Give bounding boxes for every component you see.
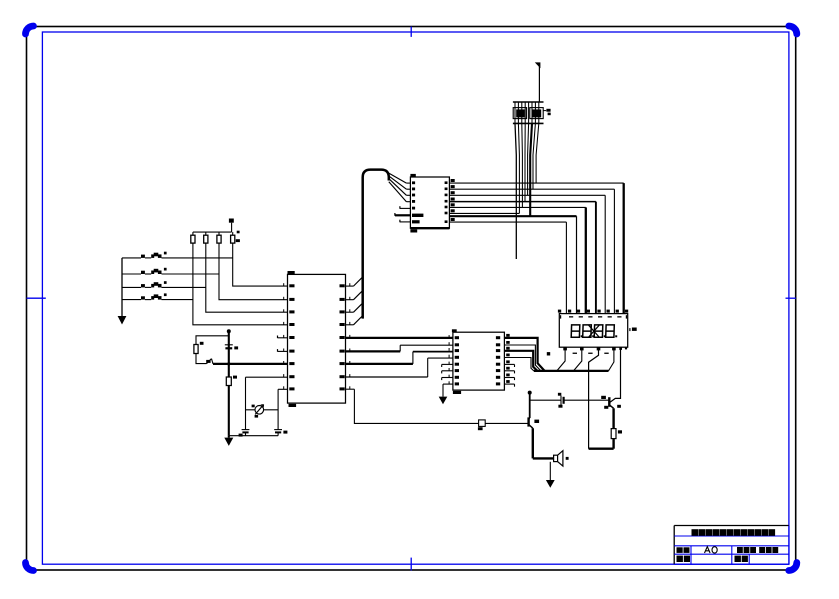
wire crystal line 2: [533, 123, 535, 189]
resistor R2: [204, 232, 208, 243]
ground oscillator: [224, 436, 233, 446]
U2 pin 6 stub: [394, 213, 410, 216]
label Y1: [544, 109, 551, 115]
capacitor CT1 trimmer: [252, 405, 264, 418]
title block: [674, 526, 789, 565]
DS1 bottom pins: [547, 347, 627, 355]
wire R4 to U1 pin 1: [233, 243, 288, 286]
node VCC oscillator: [227, 329, 231, 333]
wire U3.2 to rail: [504, 345, 541, 371]
wire crystal line 8: [515, 123, 516, 259]
wire segment bus b6: [449, 216, 576, 313]
wire R5 to Q3: [196, 354, 207, 364]
U2 pin 7 stub: [399, 220, 410, 223]
wire crystal line 4: [528, 123, 529, 195]
wire R8 to bottom rail: [612, 439, 614, 449]
wire DS1.p1 to rail: [557, 347, 565, 371]
DS1 top pin numbers: [558, 310, 628, 313]
wire DS1.p5 to Q2: [610, 347, 621, 402]
transistor Q1: [529, 417, 540, 428]
U3 right hook pins: [504, 364, 514, 386]
crystal Y1: [513, 102, 544, 123]
wire trimmer rail: [246, 409, 279, 411]
wire trimmer left branch: [245, 377, 247, 429]
wire Q2 base feed: [530, 399, 561, 401]
node junction osc: [227, 362, 230, 365]
capacitor C3: [274, 430, 287, 434]
wire speaker feed: [533, 457, 554, 459]
ground speaker: [546, 480, 555, 488]
wire crystal line 3: [530, 123, 532, 216]
switch S3: [122, 281, 206, 287]
resistor R5: [194, 342, 204, 354]
resistor R6: [226, 376, 237, 386]
transistor Q3: [206, 359, 213, 364]
U1 pin 5 stub: [277, 336, 288, 339]
wire segment rail: [534, 370, 609, 372]
wire crystal line 5: [524, 123, 526, 201]
wire U1 pin 8: [246, 376, 288, 378]
Y1 hatch pins: [515, 102, 539, 123]
U2 pin labels right: [445, 179, 455, 223]
wire Q1 emitter: [532, 428, 534, 458]
node VCC Q1: [528, 391, 532, 395]
wire U1.8 to U3.4: [346, 358, 453, 377]
switch S2: [122, 268, 219, 274]
wire switch common: [121, 258, 123, 316]
wire R3 to U1 pin 2: [219, 243, 288, 300]
ground U3: [439, 397, 448, 405]
node VCC crystal: [535, 62, 541, 68]
transistor Q2: [604, 397, 621, 409]
U2 pin 5 stub: [399, 206, 410, 209]
wire osc bottom rail: [229, 435, 278, 437]
U1 pin labels right: [340, 284, 345, 390]
wire speaker to ground: [549, 462, 551, 480]
wire Q3 to U1 pin 7: [213, 363, 288, 365]
wire U1.5 to U3.1: [346, 337, 453, 339]
resistor R8: [611, 429, 622, 439]
ground switches: [118, 316, 127, 325]
U2 pin labels left: [412, 181, 423, 223]
wire DS1.p2 to rail: [574, 347, 582, 371]
U1 pin ticks: [283, 283, 350, 389]
U3 left hook pins: [442, 364, 453, 380]
switch S1: [122, 252, 233, 258]
wire osc main vertical: [228, 331, 230, 436]
wire U1 pin 9: [278, 388, 287, 390]
U3 pin labels left: [449, 335, 459, 385]
wire Q2 emitter: [612, 408, 614, 428]
U3 pin labels right: [496, 334, 510, 386]
capacitor C1: [225, 345, 238, 350]
wire segment bus b7: [449, 222, 566, 314]
wire segment bus b1: [449, 183, 623, 314]
wire U3 pin8 to ground: [443, 384, 453, 397]
resistor R4: [231, 232, 235, 243]
wire pull-up bus: [193, 231, 232, 233]
wire DS1.p3 digit drive: [589, 347, 599, 449]
speaker LS1: [554, 451, 569, 466]
op-amp U3 (decoder IC): [452, 329, 505, 394]
capacitor C2: [239, 430, 250, 437]
wire segment bus b2: [449, 189, 614, 313]
wire U2 left fan: [387, 172, 411, 202]
capacitor C4: [558, 393, 564, 408]
resistor R1: [191, 232, 195, 243]
diode D1: [478, 420, 529, 430]
label R7: [601, 396, 606, 399]
wire crystal line 6: [521, 123, 524, 207]
wire osc top loop: [196, 336, 229, 345]
display DS1: [559, 314, 636, 348]
wire thick bus U1 to U2: [363, 170, 389, 319]
wire U1.6 to U3.2: [346, 345, 453, 351]
wire segment bus b3: [449, 195, 605, 313]
title text: [692, 529, 776, 536]
wire R1 to U1 pin 4: [193, 243, 288, 325]
wire Q1 collector: [529, 393, 531, 418]
wire crystal supply: [538, 66, 540, 102]
wire U3.1 to rail: [504, 338, 544, 371]
resistor R3: [217, 232, 221, 243]
wire segment bus b5: [449, 207, 585, 313]
wire R2 to U1 pin 3: [206, 243, 288, 312]
wire DS1.p4 to rail: [609, 347, 614, 371]
DS1 digits 8.8.8.8: [571, 325, 617, 337]
U1 pin labels left: [289, 284, 294, 390]
DS1 top inner ticks: [560, 315, 627, 318]
op-amp U2 (display driver IC): [410, 174, 449, 233]
wire U3.3 to rail: [504, 351, 537, 371]
U1 pin 6 stub: [277, 349, 288, 352]
wire U1 pin9 to Q1 base: [346, 389, 479, 423]
title block labels: [677, 547, 779, 562]
wire segment bus b8: [449, 212, 519, 214]
wire trimmer right branch: [277, 389, 279, 429]
node VCC (pull-up supply): [229, 219, 234, 233]
wire U1 right fan: [346, 277, 363, 325]
wire bottom rail: [589, 448, 614, 450]
op-amp U1 (main counter IC): [288, 271, 346, 407]
label R4 value: [236, 231, 240, 242]
wire crystal line 7: [518, 123, 519, 213]
wire U1.7 to U3.3: [346, 352, 453, 364]
switch S4: [122, 293, 193, 299]
wire crystal line 1: [536, 123, 539, 183]
wire U3.4 to rail: [504, 358, 533, 371]
wire segment bus b4: [449, 202, 596, 314]
